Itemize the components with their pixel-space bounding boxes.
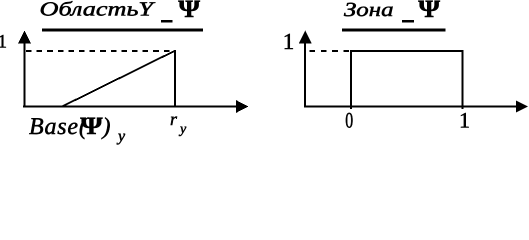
right x-axis arrowhead bbox=[516, 101, 528, 113]
title right underscore bbox=[402, 20, 414, 23]
svg-text:y: y bbox=[116, 128, 126, 145]
svg-text:ОбластьY: ОбластьY bbox=[40, 0, 156, 21]
svg-text:Ψ: Ψ bbox=[418, 0, 440, 23]
left peak vertical drop at r_y bbox=[174, 50, 176, 107]
svg-text:y: y bbox=[178, 122, 187, 137]
title left underline rule bbox=[42, 29, 203, 32]
left x-axis line bbox=[23, 106, 237, 108]
right dashed level-1 line bbox=[310, 50, 351, 52]
svg-text:1: 1 bbox=[0, 31, 7, 52]
svg-text:Ψ: Ψ bbox=[80, 113, 103, 140]
right rectangle right side bbox=[461, 50, 463, 109]
right rectangle left side bbox=[350, 50, 352, 109]
left y-axis line bbox=[24, 40, 26, 107]
svg-text:Ψ: Ψ bbox=[178, 0, 200, 23]
svg-text:Зона: Зона bbox=[344, 0, 394, 21]
right x-axis line bbox=[304, 106, 516, 108]
title left underscore bbox=[161, 20, 173, 23]
title right underline rule bbox=[342, 29, 446, 32]
svg-text:r: r bbox=[170, 109, 178, 129]
svg-text:0: 0 bbox=[345, 108, 353, 133]
left ramp (membership line) bbox=[62, 51, 176, 107]
right rectangle top side bbox=[350, 50, 463, 52]
right y-axis arrowhead bbox=[299, 31, 312, 44]
svg-text:): ) bbox=[101, 114, 111, 140]
left dashed level-1 line bbox=[26, 50, 175, 52]
left x-axis arrowhead bbox=[236, 100, 249, 113]
right y-axis line bbox=[304, 40, 306, 107]
svg-text:1: 1 bbox=[283, 29, 295, 54]
svg-text:1: 1 bbox=[459, 108, 470, 133]
left y-axis arrowhead bbox=[18, 31, 31, 44]
